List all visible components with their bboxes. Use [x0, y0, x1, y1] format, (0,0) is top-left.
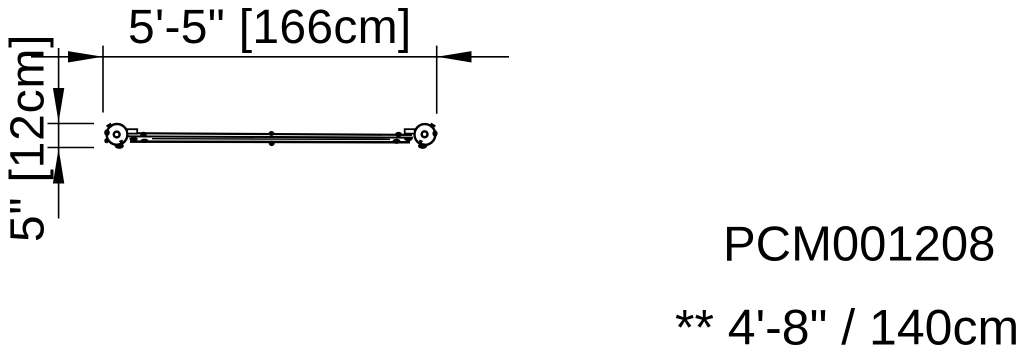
beam tube top line [128, 133, 412, 135]
beam lower rail bottom line [130, 140, 410, 143]
right clamp bottom lug [418, 143, 427, 149]
svg-text:PCM001208: PCM001208 [723, 218, 995, 272]
vertical dimension line [58, 48, 60, 219]
left clamp bolt upper [140, 132, 147, 137]
horizontal dimension line [31, 56, 509, 58]
left clamp interior wedge [119, 140, 123, 144]
svg-text:** 4'-8" / 140cm: ** 4'-8" / 140cm [675, 300, 1019, 352]
left clamp top wedge [106, 123, 113, 129]
right clamp interior wedge [419, 140, 423, 144]
down arrowhead [53, 88, 64, 122]
beam tube middle line [128, 136, 413, 137]
left clamp hub [114, 132, 120, 138]
left clamp under-plate block [129, 137, 137, 141]
middle joint bottom bump [269, 141, 275, 146]
top extension tick [48, 123, 95, 125]
bottom extension tick [48, 147, 95, 149]
left clamp side lug [104, 129, 110, 136]
right clamp top wedge [430, 123, 437, 129]
left clamp bolt lower [141, 139, 149, 143]
right clamp bolt lower [393, 139, 401, 144]
right clamp bracket plate [405, 129, 415, 133]
right clamp hub [422, 131, 428, 137]
left extension line [102, 46, 104, 113]
svg-text:5'-5" [166cm]: 5'-5" [166cm] [128, 1, 412, 54]
right clamp bolt upper [395, 132, 402, 137]
left clamp bottom lug [115, 143, 124, 149]
left clamp disc [107, 124, 128, 145]
left arrowhead [68, 51, 103, 62]
beam lower rail thin line [152, 138, 390, 141]
right extension line [436, 46, 438, 114]
right clamp under-plate block [404, 137, 412, 141]
up arrowhead [53, 148, 64, 183]
svg-text:5" [12cm]: 5" [12cm] [2, 34, 55, 242]
left clamp lower-left outline blob [104, 138, 108, 143]
left clamp bracket plate [127, 129, 137, 133]
middle joint top bump [269, 131, 275, 136]
right arrowhead [437, 51, 472, 62]
right clamp disc [415, 124, 436, 145]
right clamp side lug [432, 130, 437, 136]
